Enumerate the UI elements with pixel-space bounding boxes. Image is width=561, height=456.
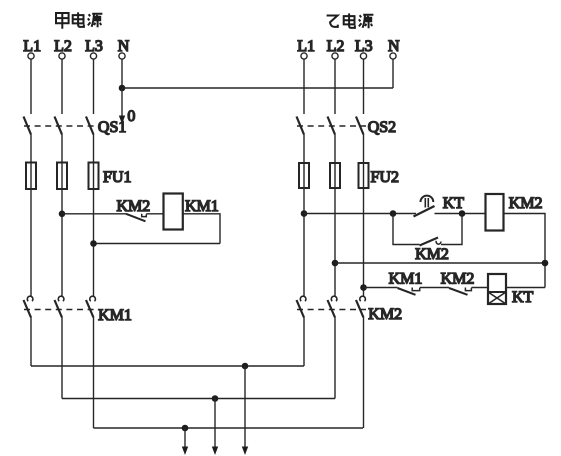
junction KM2 return: [542, 260, 549, 267]
wire control row B left: [304, 213, 416, 215]
contact KM1 main pole 1: [24, 296, 33, 317]
wire L3 left upper: [93, 59, 95, 114]
wire L2 left mid: [61, 135, 63, 163]
svg-text:FU2: FU2: [371, 169, 399, 186]
terminal N right: [390, 53, 396, 59]
wire L1 right upper: [303, 59, 305, 114]
svg-text:KM2: KM2: [509, 195, 543, 212]
label L1 (left): [23, 38, 41, 55]
junction KT return L2: [332, 260, 339, 267]
terminal L3 left: [90, 53, 96, 59]
wire L3 left to bus3: [93, 318, 95, 429]
switch QS2 pole 2 blade: [328, 117, 336, 135]
wire L3 right lower: [363, 188, 365, 296]
label QS2: [368, 119, 396, 136]
svg-text:KM2: KM2: [117, 198, 151, 215]
bus line 3: [94, 427, 364, 429]
contact KM1 main pole 3: [86, 296, 95, 317]
junction control tap L2: [59, 211, 66, 218]
contact KM2 NC blade: [126, 214, 146, 222]
svg-text:KM2: KM2: [415, 246, 449, 263]
junction control tap right L1: [301, 210, 308, 217]
wire row y263: [335, 262, 545, 264]
label source B title 乙电源: [327, 13, 374, 28]
switch QS2 interlink dashed: [297, 125, 366, 127]
contact KM2 selfhold blade: [420, 238, 439, 246]
fuse FU1 pole 3: [89, 163, 99, 190]
junction selfhold right: [459, 210, 466, 217]
switch QS1 pole 1 blade: [24, 117, 32, 135]
wire L3 right upper: [363, 59, 365, 114]
label L2 (right): [327, 38, 345, 55]
wire KT coil right: [506, 287, 545, 289]
junction KT row L3: [360, 284, 367, 291]
wire L3 left lower: [93, 189, 95, 296]
label N (right): [388, 38, 400, 55]
label 0: [127, 108, 135, 125]
label L3 (left): [85, 38, 103, 55]
label KM2 coil: [509, 195, 543, 212]
wire control row A left: [62, 213, 126, 215]
label KM1 NC: [389, 271, 423, 288]
wire L2 right upper: [334, 59, 336, 114]
wire coil KM1 right: [183, 214, 220, 244]
switch QS1 pole 3 blade: [86, 117, 94, 135]
label KT contact: [443, 195, 465, 212]
junction parallel branch top: [390, 210, 397, 217]
symbol KT delay arc: [421, 196, 434, 208]
svg-text:QS2: QS2: [368, 119, 396, 136]
wire L1 right lower: [303, 188, 305, 296]
wire N right drop: [392, 59, 394, 88]
wire output 1 drop: [242, 366, 248, 455]
label KM2 selfhold: [415, 246, 449, 263]
wire L1 left mid: [30, 135, 32, 163]
fuse FU1 pole 2: [57, 163, 67, 190]
junction output 3: [182, 425, 189, 432]
contact KM1 NC seat: [412, 288, 420, 291]
label N (left): [118, 38, 130, 55]
svg-text:FU1: FU1: [103, 169, 131, 186]
fuse FU2 pole 1: [299, 163, 309, 188]
wire KT row left: [364, 287, 398, 289]
wire L3 left mid: [93, 135, 95, 163]
wire L1 right to bus1: [303, 318, 305, 367]
label source A title 甲电源: [56, 12, 102, 28]
contact KM2 NC seat: [465, 288, 471, 291]
contact KM2 NC seat: [142, 214, 147, 217]
junction N left: [119, 85, 126, 92]
wire L2 left lower: [61, 189, 63, 296]
wire NC to KT coil: [471, 287, 488, 289]
wire L3 right to bus3: [363, 318, 365, 429]
label KM2 (NC contact in KM1 circuit): [117, 198, 151, 215]
fuse FU1 pole 1: [26, 163, 36, 190]
wire L3 right mid: [363, 135, 365, 164]
bus line 1: [31, 365, 304, 367]
terminal L1 right: [301, 53, 307, 59]
terminal L2 right: [332, 53, 338, 59]
label KT coil: [512, 289, 534, 306]
label FU2: [371, 169, 399, 186]
label L2 (left): [54, 38, 72, 55]
contact KM2 main pole 3: [356, 296, 365, 317]
contact KM2 NC blade: [449, 288, 468, 295]
wire between NC contacts: [420, 287, 449, 289]
contact KM1 NC blade: [398, 288, 416, 295]
wire L2 left upper: [61, 59, 63, 114]
svg-text:KM1: KM1: [98, 307, 132, 324]
wire L1 left upper: [30, 59, 32, 114]
contact KM1 main pole 2: [55, 296, 64, 317]
label KM2 main: [368, 306, 402, 323]
wire selfhold branch: [393, 214, 462, 245]
terminal N left: [119, 53, 125, 59]
fuse FU2 pole 3: [359, 163, 369, 188]
fuse FU2 pole 2: [330, 163, 340, 188]
wire L1 left lower: [30, 189, 32, 296]
wire 0 neutral arrow: [119, 88, 125, 124]
terminal L1 left: [28, 53, 34, 59]
bus line 2: [62, 398, 335, 400]
svg-text:L1: L1: [297, 38, 315, 55]
coil KT: [488, 274, 506, 304]
contact KM2 main pole 2: [328, 296, 337, 317]
junction output 2: [212, 395, 219, 402]
label KM1 main: [98, 307, 132, 324]
svg-text:N: N: [118, 38, 130, 55]
terminal L3 right: [360, 53, 366, 59]
svg-text:KM1: KM1: [389, 271, 423, 288]
contact KM1 interlink dashed: [24, 309, 97, 311]
svg-text:0: 0: [127, 108, 135, 125]
svg-text:QS1: QS1: [98, 119, 126, 136]
wire output 3 drop: [182, 428, 188, 455]
junction return L3: [90, 240, 97, 247]
wire coil KM2 right: [504, 214, 546, 288]
switch QS1 pole 2 blade: [55, 117, 63, 135]
wire output 2 drop: [212, 399, 218, 456]
svg-text:KT: KT: [512, 289, 534, 306]
label FU1: [103, 169, 131, 186]
junction output 1: [242, 363, 249, 370]
wire N left drop: [121, 59, 123, 88]
label QS1: [98, 119, 126, 136]
terminal L2 left: [59, 53, 65, 59]
wire L1 right mid: [303, 135, 305, 164]
switch QS2 pole 1 blade: [297, 117, 305, 135]
wire L2 right to bus2: [334, 318, 336, 399]
switch QS2 pole 3 blade: [356, 117, 364, 135]
wire L2 right lower: [334, 188, 336, 296]
contact KT delayed blade: [414, 206, 435, 217]
wire coil KM1 return: [94, 243, 221, 245]
label KM2 NC: [441, 271, 475, 288]
svg-text:KT: KT: [443, 195, 465, 212]
wire L1 left to bus1: [30, 318, 32, 367]
svg-text:KM1: KM1: [185, 198, 219, 215]
label L1 (right): [297, 38, 315, 55]
contact KM2 main pole 1: [297, 296, 306, 317]
contact KM2 selfhold arc: [436, 241, 441, 244]
svg-text:KM2: KM2: [441, 271, 475, 288]
switch QS1 interlink dashed: [24, 125, 97, 127]
label KM1 coil: [185, 198, 219, 215]
coil KM2: [486, 194, 504, 231]
wire L2 right mid: [334, 135, 336, 164]
wire KT contact to coil: [435, 213, 486, 215]
label L3 (right): [355, 38, 373, 55]
contact KM2 interlink dashed: [297, 309, 366, 311]
wire L2 left to bus2: [61, 318, 63, 399]
coil KM1: [164, 194, 183, 230]
wire NC to coil KM1: [146, 213, 163, 215]
svg-text:KM2: KM2: [368, 306, 402, 323]
wire N horizontal link: [122, 87, 393, 89]
